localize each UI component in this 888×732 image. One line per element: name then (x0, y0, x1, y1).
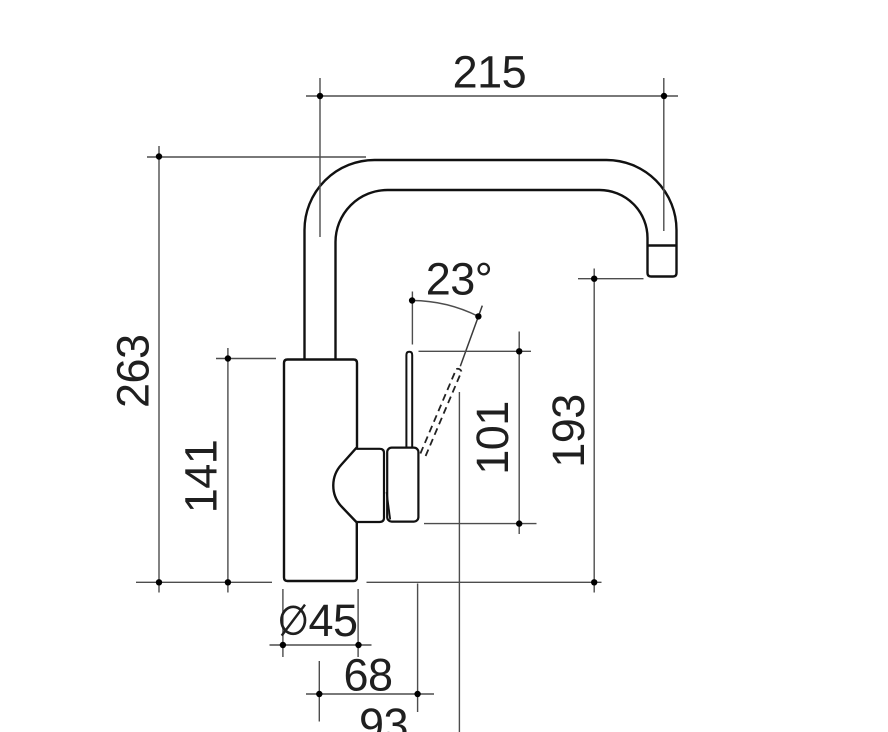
dimension lines (136, 78, 678, 732)
svg-text:101: 101 (467, 401, 518, 475)
263 dim line (158, 146, 160, 593)
neck piece (357, 449, 385, 522)
dia 45 (282, 589, 284, 657)
23 degree arc (412, 301, 478, 317)
svg-text:141: 141 (176, 440, 227, 514)
193 dim line (593, 269, 595, 593)
svg-text:23°: 23° (426, 254, 493, 305)
handle lever (406, 352, 412, 450)
body (284, 360, 357, 582)
counter extension right (367, 581, 602, 583)
215 dim line (306, 95, 678, 97)
svg-text:215: 215 (453, 47, 527, 98)
spout tube (305, 160, 677, 360)
93 extension (458, 392, 460, 732)
diameter symbol of O45 (281, 605, 305, 636)
svg-text:45: 45 (309, 595, 358, 646)
spout tip divider (648, 244, 677, 246)
svg-text:193: 193 (543, 394, 594, 468)
counter extension left (136, 581, 272, 583)
68 (318, 661, 320, 722)
141 dim line (227, 348, 229, 593)
dashed tilted lever (420, 369, 461, 456)
tilted lever axis line (460, 306, 482, 367)
101 dim line (518, 332, 520, 535)
svg-text:68: 68 (343, 650, 392, 701)
svg-text:263: 263 (108, 334, 159, 408)
handle base (387, 448, 418, 522)
handle base slant line (387, 492, 391, 520)
svg-text:93: 93 (359, 699, 408, 732)
